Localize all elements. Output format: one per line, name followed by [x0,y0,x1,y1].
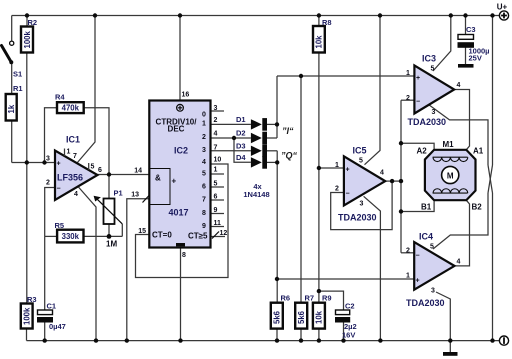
diode D4 [236,153,267,169]
svg-text:M1: M1 [442,140,454,149]
svg-text:10: 10 [214,157,222,164]
IC1 pin 1 stub [64,149,66,157]
wire IC1 output to IC2 pin 14 [98,174,150,176]
svg-text:2: 2 [406,248,410,255]
wire R9 bottom [318,329,320,341]
wire S1 top connection [11,16,13,41]
wire IC2 output 9 stub pin 11 [211,226,225,228]
svg-text:−: − [416,252,420,259]
svg-text:D1: D1 [236,115,246,124]
svg-text:5: 5 [430,243,434,250]
wire A2 to motor [401,143,434,150]
svg-text:7: 7 [73,153,77,160]
wire IC5 feedback pin 2 loop [331,181,392,230]
terminal U+ [497,3,509,21]
resistor R2 [21,18,37,53]
svg-text:10k: 10k [315,35,324,49]
svg-text:3: 3 [360,201,364,208]
wire IC2 output 0 stub pin 3 [211,110,225,112]
svg-text:7: 7 [202,197,206,204]
wire D3 cathode to Q node [267,150,277,152]
svg-text:5k6: 5k6 [297,310,306,324]
wire IC1 pin 2 to R5 node [45,188,56,237]
wire IC2 CT>=5 stub pin 12 [211,236,226,238]
svg-text:4017: 4017 [169,208,189,218]
wire R4 right to output node and P1 top [84,108,109,199]
svg-text:+: + [57,161,61,168]
wire B1 to motor [401,200,434,211]
wire IC5 output [385,180,401,182]
svg-text:5k6: 5k6 [273,310,282,324]
svg-text:5: 5 [359,158,363,165]
wire IC2 pin 13 to ground rail [127,199,150,341]
svg-text:B1: B1 [421,203,432,212]
wire D2 node to D4 anode [234,138,251,162]
resistor R7 [295,294,314,329]
resistor R4 [55,93,84,114]
wire IC3 pin 3 toward crossing [429,105,489,166]
svg-text:9: 9 [214,207,218,214]
svg-text:2: 2 [335,186,339,193]
svg-text:8: 8 [202,210,206,217]
svg-text:1: 1 [335,162,339,169]
svg-text:DEC: DEC [168,125,185,134]
wire IC2 output 5 stub pin 1 [211,173,225,175]
wire IC2 output 6 stub pin 5 [211,186,225,188]
svg-text:1N4148: 1N4148 [243,190,269,199]
svg-text:8: 8 [182,252,186,259]
svg-text:3: 3 [202,147,206,154]
svg-text:+: + [346,167,350,174]
wire crossing segment 2 [488,165,493,193]
svg-text:IC5: IC5 [353,146,367,156]
wire R2 bottom down to R3 top [26,53,28,304]
wire C3 top [465,16,467,35]
terminal 0 [499,336,508,345]
svg-text:M: M [447,172,454,181]
svg-text:TDA2030: TDA2030 [408,117,447,127]
resistor R3 [21,295,37,329]
svg-text:”Q“: ”Q“ [281,151,298,161]
wire IC2 pin 8 to ground rail [180,248,182,341]
svg-text:5: 5 [91,164,95,171]
svg-text:1: 1 [214,167,218,174]
wire input node row to IC1 pin 3 [12,162,56,164]
svg-text:TDA2030: TDA2030 [406,298,445,308]
svg-text:4: 4 [457,259,461,266]
wire IC2 pin 10 output 4 to pin 15 reset loop [136,164,229,278]
svg-text:R9: R9 [322,294,332,303]
wire R8 top [318,16,320,27]
svg-text:15: 15 [138,228,146,235]
svg-text:6: 6 [202,184,206,191]
svg-text:2: 2 [46,180,50,187]
IC1 pin 5 stub [88,163,90,170]
wire IC2 output 3 to D3 anode [211,150,251,152]
diode D1 [236,115,267,131]
capacitor C3 [458,25,490,68]
wire IC2 pin 16 supply [179,16,181,101]
svg-text:+: + [416,75,420,82]
svg-text:0µ47: 0µ47 [49,322,66,331]
svg-text:R1: R1 [13,84,23,93]
wire D2 cathode to I node [267,137,277,139]
svg-text:A1: A1 [473,147,484,156]
svg-text:10k: 10k [315,310,324,324]
wire common net IC5 out A2 B1 [400,100,402,253]
wire IC1 pin 7 to supply rail [77,16,95,164]
svg-text:1M: 1M [106,240,117,249]
svg-text:470k: 470k [62,104,80,113]
resistor R5 [55,221,84,242]
svg-text:−: − [57,186,61,193]
switch S1 [2,41,23,78]
wire bottom ground rail [27,340,500,342]
svg-text:−: − [346,191,350,198]
wire R6 bottom [276,329,278,341]
wire P1 wiper drop [121,224,123,237]
svg-text:IC2: IC2 [174,146,188,156]
IC2 clock sub-block [149,169,170,205]
wire top supply rail U+ [12,15,500,17]
wire IC2 output 1 to D1 anode [211,123,251,125]
svg-text:4: 4 [457,82,461,89]
wire R5 right to 1M node [84,235,123,237]
capacitor C1 [37,302,66,332]
resistor R6 [271,294,290,329]
svg-text:0: 0 [202,112,206,119]
svg-text:C3: C3 [466,25,476,34]
svg-text:7: 7 [214,145,218,152]
IC2 plus supply symbol pin 16 [177,104,184,111]
M1 stator coil top [433,157,468,161]
resistor R9 [313,294,332,329]
svg-text:U+: U+ [497,3,508,12]
svg-text:12: 12 [220,230,228,237]
capacitor C2 [335,302,357,340]
wire D4 cathode to Q node [267,161,277,163]
wire crossing to ground rail [492,193,494,341]
svg-text:100k: 100k [22,307,31,325]
diode D2 [236,129,267,145]
svg-text:3: 3 [214,105,218,112]
wire IC3 pin 5 supply [433,16,451,72]
svg-text:D3: D3 [236,141,246,150]
svg-text:IC3: IC3 [422,54,436,64]
wire motor B2 to IC4 output [454,200,470,266]
svg-text:4: 4 [380,170,384,177]
svg-text:TDA2030: TDA2030 [338,213,377,223]
svg-text:4: 4 [74,191,78,198]
svg-text:R5: R5 [55,221,65,230]
svg-text:R8: R8 [322,18,332,27]
svg-text:9: 9 [202,223,206,230]
svg-text:3: 3 [431,288,435,295]
svg-text:B2: B2 [472,203,483,212]
wire crossing to IC4 pin 5 supply [433,193,488,249]
wire R3 bottom to ground rail [26,329,28,341]
wire IC5 pin 1 [319,167,344,169]
svg-text:4: 4 [214,131,218,138]
M1 stator coil bottom [433,189,468,193]
svg-text:6: 6 [98,167,102,174]
motor M1 [417,140,484,212]
svg-text:4: 4 [202,159,206,166]
svg-text:R3: R3 [27,295,37,304]
svg-text:CT=0: CT=0 [152,231,172,240]
wire IC2 output 8 stub pin 9 [211,213,225,215]
svg-text:2: 2 [202,134,206,141]
wire IC5 pin 5 supply [365,16,381,165]
svg-text:S1: S1 [13,70,22,79]
svg-text:2: 2 [214,117,218,124]
wire C2 branch [319,291,344,341]
svg-text:1: 1 [406,273,410,280]
svg-text:IC4: IC4 [419,232,433,242]
wire Q node bus to IC4 pin 1 [277,278,414,280]
svg-text:16V: 16V [342,331,355,340]
M1 rotor [442,166,459,183]
svg-text:LF356: LF356 [57,173,83,183]
wire C1 bottom to ground rail [44,323,46,341]
wire P1 bottom [108,224,110,236]
svg-text:3: 3 [432,109,436,116]
svg-text:5: 5 [214,181,218,188]
svg-text:C1: C1 [47,302,57,311]
ground bar under C3 [458,64,474,68]
svg-text:+: + [172,177,177,186]
svg-text:16: 16 [182,92,190,99]
wire R4 left to +input node [45,108,58,163]
wire IC1 pin 4 to ground rail [78,187,96,341]
svg-text:1: 1 [202,120,206,127]
svg-text:1k: 1k [7,104,16,113]
svg-text:C2: C2 [345,302,355,311]
wire R7 string from mid bus to box and ground [300,76,302,341]
wire IC4 pin 2 [401,252,414,254]
wire R1 bottom to input node [11,121,13,163]
wire IC3 output to motor A1 [454,90,470,150]
svg-text:2: 2 [406,95,410,102]
svg-text:1: 1 [406,70,410,77]
resistor R8 [313,18,332,53]
svg-text:R4: R4 [55,93,65,102]
wire U+ branch down to crossing [492,16,494,166]
wire D1 cathode to I node [267,123,277,125]
svg-text:R2: R2 [28,18,38,27]
wire Q node drop to R6 [276,151,278,303]
wire R8 bottom down to R9 [318,53,320,303]
op-amp IC4 TDA2030 [406,232,461,309]
svg-text:R7: R7 [305,294,315,303]
svg-text:3: 3 [46,156,50,163]
svg-text:330k: 330k [62,232,80,241]
wire IC4 pin 3 to ground symbol [436,292,450,352]
IC2 pin 12 wedge [212,232,219,239]
svg-text:P1: P1 [114,189,123,198]
svg-text:100k: 100k [23,30,32,48]
wire crossing segment 1 [488,165,493,193]
svg-text:R6: R6 [281,294,291,303]
svg-text:13: 13 [131,192,139,199]
svg-text:D2: D2 [236,129,246,138]
wire C3 middle to ground bar [465,48,467,65]
wire IC5 pin 3 to ground rail [364,196,381,340]
wire IC2 output 2 to D2 anode [211,137,251,139]
svg-text:−: − [416,99,420,106]
svg-text:CT≥5: CT≥5 [188,232,208,241]
ground symbol under IC4 pin 3 [443,352,458,356]
potentiometer P1 [94,189,123,249]
svg-text:6: 6 [214,194,218,201]
resistor R1 [6,84,23,121]
wire mid bus I node to IC3 pin 1 [277,75,415,77]
svg-text:11: 11 [214,220,222,227]
svg-text:5: 5 [431,66,435,73]
wire R2 top [26,16,28,27]
svg-text:1: 1 [67,149,71,156]
counter IC2 4017 [131,92,227,260]
svg-text:A2: A2 [417,147,428,156]
op-amp IC1 [46,135,102,201]
wire IC2 output 7 stub pin 6 [211,199,225,201]
wire S1 to R1 [11,63,13,94]
IC2 pin 8 negative supply tick [176,243,185,246]
diode D3 [236,141,267,157]
wire I node riser [276,76,278,138]
svg-text:25V: 25V [469,54,482,63]
svg-text:D4: D4 [236,153,246,162]
svg-text:+: + [416,278,420,285]
op-amp IC5 TDA2030 [335,146,385,223]
svg-text:5: 5 [202,171,206,178]
wire C1 top [44,236,46,310]
svg-text:14: 14 [134,168,142,175]
wire R5 left [45,235,57,237]
svg-text:&: & [155,174,161,183]
svg-text:”I“: ”I“ [282,126,294,136]
op-amp IC3 TDA2030 [406,54,461,128]
svg-text:IC1: IC1 [66,135,80,145]
wire IC3 pin 2 [401,99,415,101]
